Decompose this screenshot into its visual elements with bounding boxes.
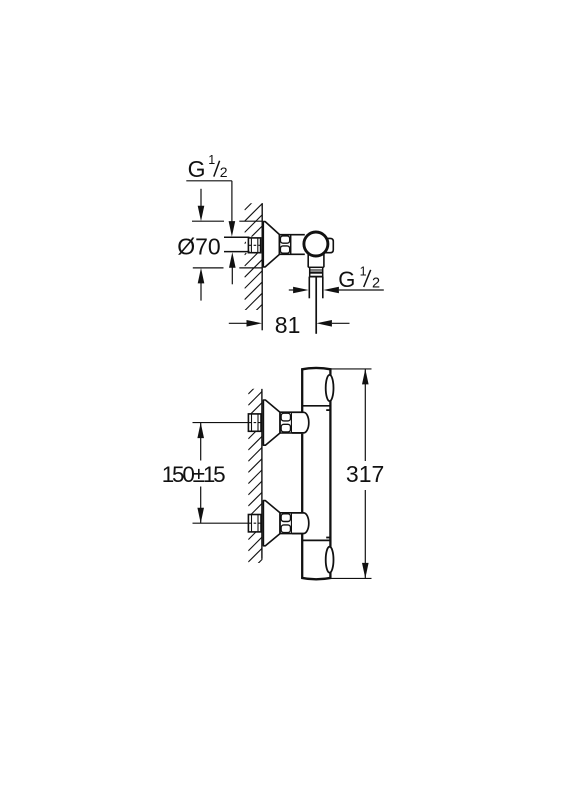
- union nut inside wall: [248, 238, 260, 253]
- svg-text:1: 1: [360, 265, 367, 279]
- extension line at escutcheon top edge: [192, 220, 262, 222]
- dome connector to bar (upper): [292, 412, 309, 433]
- cartridge cap tab (right of valve body): [322, 238, 333, 252]
- dimension Ø70 lower arrow: [198, 268, 205, 301]
- hose coupling nut with ridges: [309, 267, 323, 276]
- label G1/2 (hose connection): [338, 265, 380, 292]
- hex union (lower): [280, 513, 302, 534]
- escutcheon cone (upper): [263, 400, 280, 445]
- leader arrows for hose G1/2: [289, 287, 384, 294]
- svg-text:G: G: [188, 156, 206, 182]
- hex union (upper): [280, 412, 302, 433]
- leader line from G1/2 to inlet pipe: [186, 181, 235, 237]
- union nut in wall (upper): [248, 414, 261, 431]
- hose elbow shank below valve: [308, 250, 324, 267]
- temperature knob edge (top ellipse): [326, 375, 334, 401]
- hose wall lines: [309, 277, 323, 299]
- wall face line (top view): [261, 203, 263, 330]
- svg-text:G: G: [338, 267, 355, 292]
- svg-text:317: 317: [346, 461, 384, 487]
- thermostat bar body outline: [301, 368, 331, 579]
- dimension 150±15 extension lines: [193, 423, 249, 524]
- dimension 150±15 line and arrows: [197, 423, 204, 524]
- dome connector to bar (lower): [292, 513, 309, 534]
- svg-text:1: 1: [208, 153, 215, 167]
- svg-text:2: 2: [372, 275, 380, 291]
- top cap tick: [326, 409, 330, 411]
- dimension 317 line and arrows: [362, 369, 369, 579]
- up arrow pointing at inlet pipe underside: [229, 252, 236, 284]
- dimension Ø70 upper arrow: [198, 189, 205, 221]
- dimension 81 line and arrows: [229, 320, 350, 327]
- slash of hose G1/2 label: [364, 270, 371, 287]
- bottom cap tick: [326, 537, 330, 539]
- svg-text:Ø70: Ø70: [177, 234, 220, 260]
- hose centre line: [315, 277, 317, 334]
- inlet pipe Ø70 stub: [224, 237, 250, 251]
- flow knob edge (bottom ellipse): [326, 547, 334, 573]
- extension line at escutcheon bottom edge: [193, 267, 262, 269]
- dimension 317 extension lines: [330, 369, 371, 579]
- hex union on escutcheon: [279, 235, 304, 255]
- bottom cap separation line: [302, 539, 330, 541]
- union nut in wall (lower): [248, 515, 261, 532]
- svg-text:150±15: 150±15: [162, 462, 225, 487]
- escutcheon cone (top view): [263, 222, 279, 267]
- svg-text:81: 81: [275, 312, 301, 338]
- label G1/2 (wall union thread, top view): [188, 153, 228, 182]
- svg-text:2: 2: [220, 164, 228, 180]
- escutcheon cone (lower): [263, 501, 280, 546]
- slash of G1/2 label: [214, 161, 220, 177]
- valve body circle: [304, 232, 328, 256]
- wall face line (front view): [261, 389, 263, 559]
- top cap separation line: [302, 405, 330, 407]
